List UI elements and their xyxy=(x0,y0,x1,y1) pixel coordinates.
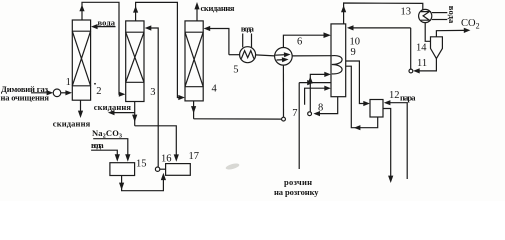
svg-text:вода: вода xyxy=(91,140,104,150)
wire: reboiler product down xyxy=(383,109,391,178)
wire: stub line into column 10 xyxy=(305,88,325,105)
svg-text:на розгонку: на розгонку xyxy=(274,187,319,197)
wire: line between 5 and 6 xyxy=(256,55,275,56)
svg-text:16: 16 xyxy=(161,154,172,165)
make-up tank 15 xyxy=(110,163,135,176)
wire: column 10 bottom to node 8 xyxy=(315,97,338,114)
cooler 13 xyxy=(419,9,432,22)
svg-text:скидання: скидання xyxy=(201,3,235,13)
regenerator column 10 xyxy=(331,24,346,97)
wire: draw-off to reboiler 12 xyxy=(346,61,364,104)
blower 1 xyxy=(53,89,61,97)
wire: column 3 bottom drain with branch xyxy=(134,102,136,126)
separator 14 xyxy=(431,37,443,59)
wire: cooling water stubs on 13 xyxy=(432,12,448,14)
wire: cooling water stubs on 5 xyxy=(242,34,244,48)
reboiler 12 xyxy=(370,100,383,118)
column 3 (soda absorber) xyxy=(126,21,144,102)
column 2 (water scrubber) xyxy=(72,20,90,100)
svg-text:14: 14 xyxy=(416,43,427,54)
svg-text:6: 6 xyxy=(297,37,302,48)
svg-text:11: 11 xyxy=(417,58,427,69)
svg-text:12: 12 xyxy=(389,90,400,101)
flue gas inlet text xyxy=(1,84,50,103)
svg-text:скидання: скидання xyxy=(53,119,91,129)
svg-text:скидання: скидання xyxy=(94,102,132,112)
svg-text:розчин: розчин xyxy=(284,177,312,187)
svg-text:10: 10 xyxy=(350,37,361,48)
node 11 xyxy=(409,69,413,73)
svg-text:17: 17 xyxy=(189,151,200,162)
svg-text:CO2: CO2 xyxy=(461,18,480,31)
wire: column 4 vent xyxy=(196,7,198,21)
svg-text:пара: пара xyxy=(400,92,416,102)
tank 17 xyxy=(166,164,191,176)
column 4 (soda absorber) xyxy=(185,21,203,101)
svg-text:вода: вода xyxy=(447,6,457,24)
heat exchanger 6 xyxy=(275,48,293,66)
wire: solution feed to column 3 top (from node 16 riser) xyxy=(151,28,158,167)
steam feed xyxy=(400,92,416,102)
wire: solution draw to distillation xyxy=(299,82,331,84)
svg-text:13: 13 xyxy=(401,7,412,18)
svg-text:Na2CO3: Na2CO3 xyxy=(92,128,122,140)
heating coil 9 inside column 10 xyxy=(332,56,342,74)
wire: lean solution from coil to exchanger 6 xyxy=(292,55,332,57)
wire: column 10 overhead to cooler 13 xyxy=(344,3,423,24)
svg-text:9: 9 xyxy=(351,47,356,58)
wire: column 2 overhead gas to column 3 bottom xyxy=(82,2,120,94)
svg-text:1: 1 xyxy=(66,77,71,88)
node 16 xyxy=(155,167,159,171)
wire: column 2 bottom drain xyxy=(80,100,82,112)
wire: node 11 riser xyxy=(410,28,412,69)
svg-text:15: 15 xyxy=(136,159,147,170)
svg-text:на очищення: на очищення xyxy=(1,93,50,103)
wire: exchanger 5 left line (from 6) xyxy=(229,54,240,56)
wire: tank 15 to tank 17 xyxy=(122,176,164,191)
wire: node 8 riser into column 10 xyxy=(310,74,324,111)
wire: column 3 overhead gas to column 4 bottom xyxy=(136,2,179,97)
svg-text:3: 3 xyxy=(150,87,155,98)
water feed to column 2 xyxy=(98,18,116,28)
water feed xyxy=(91,140,104,150)
wire: column 3 bottoms to tank 17 xyxy=(135,126,177,156)
node 8 xyxy=(308,112,312,116)
wire: cooler 13 to separator 14 xyxy=(425,23,430,42)
wire: rich solution 6 to column 10 top xyxy=(283,35,324,47)
wire: reboiler 12 return to column 10 xyxy=(358,117,378,128)
wire: separator bottoms to node 11 xyxy=(419,59,436,71)
wire: CO2 product xyxy=(436,30,464,36)
wire: cooled solution to column 4 top xyxy=(210,29,229,55)
wire: gas inlet line xyxy=(31,92,48,94)
svg-text:4: 4 xyxy=(212,84,218,95)
svg-text:5: 5 xyxy=(233,65,238,76)
svg-text:7: 7 xyxy=(292,108,297,119)
wire: condensate return to column 10 xyxy=(353,27,411,29)
node 7 xyxy=(282,117,286,121)
wire: blower to column 2 xyxy=(61,92,66,94)
svg-text:вода: вода xyxy=(241,23,255,33)
wire: column 4 bottoms to node 7 xyxy=(193,101,195,119)
soda feed xyxy=(92,128,122,140)
wire: 6 down to node 7 xyxy=(282,65,284,117)
svg-text:2: 2 xyxy=(96,86,101,97)
faint scan smudge xyxy=(225,162,240,170)
cooler 5 xyxy=(240,47,256,63)
